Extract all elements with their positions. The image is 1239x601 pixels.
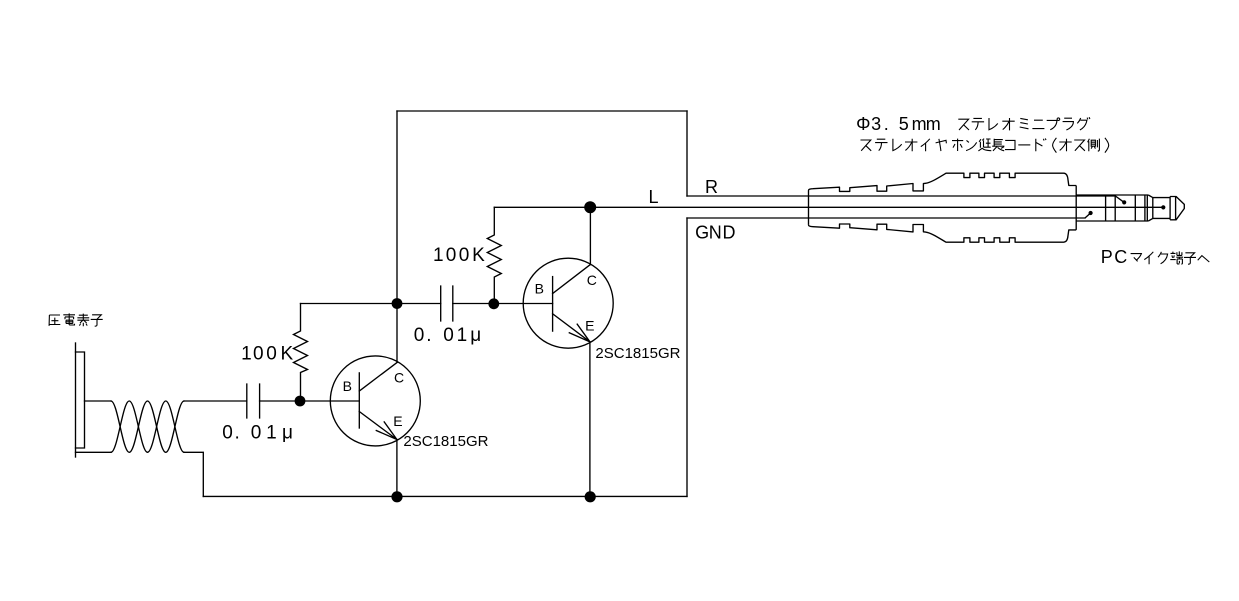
svg-text:C: C xyxy=(587,272,597,288)
transistor Q1 base bar xyxy=(358,373,360,428)
wire twisted pair upper xyxy=(111,401,184,452)
svg-text:m: m xyxy=(926,114,941,134)
wire Q1 base node to base bar xyxy=(300,400,359,402)
wire right vertical top (top rail to R line) xyxy=(686,111,688,196)
svg-text:0: 0 xyxy=(459,245,470,266)
node Q2 emitter ground junction xyxy=(585,491,596,502)
svg-text:R: R xyxy=(705,177,718,197)
wire bottom-left drop to ground rail xyxy=(184,452,203,496)
wire Q2 base node to base bar xyxy=(494,303,552,305)
leader R contact xyxy=(1115,196,1124,202)
wire C1 to Q1 base node xyxy=(260,400,300,402)
svg-text:E: E xyxy=(393,413,402,429)
svg-text:m: m xyxy=(912,114,927,134)
piezo element plate xyxy=(75,343,77,457)
wire GND line xyxy=(687,217,1085,219)
svg-text:B: B xyxy=(535,281,544,297)
svg-text:0: 0 xyxy=(222,423,233,444)
transistor Q1 collector stroke xyxy=(359,362,397,391)
label katakana "sutereominipuragu" (stereo mini plug) xyxy=(958,117,1090,130)
node Q2 base junction xyxy=(488,298,499,309)
wire Q1 emitter to ground rail xyxy=(396,440,398,497)
capacitor C1 xyxy=(247,384,260,418)
svg-text:P: P xyxy=(1101,247,1113,267)
svg-text:G: G xyxy=(695,222,709,242)
plug shaft ring divider 2 xyxy=(1114,195,1116,221)
plug shaft ring divider 3 xyxy=(1134,195,1136,221)
label katakana line2 "sutereoiyahon enchou koodo (osu gawa)" xyxy=(861,138,1109,153)
wire piezo bottom lead xyxy=(76,451,112,453)
svg-text:1: 1 xyxy=(241,344,252,365)
transistor Q2 emitter stroke with arrow xyxy=(553,314,590,342)
node Q2 collector / L junction xyxy=(584,201,596,213)
svg-text:5: 5 xyxy=(899,114,909,134)
piezo element body xyxy=(76,352,85,448)
plug shaft ring divider 4 xyxy=(1144,195,1146,221)
svg-text:0: 0 xyxy=(443,325,454,346)
wire Q2 emitter to ground rail xyxy=(589,342,591,497)
resistor R2 100K xyxy=(487,207,501,303)
wire twisted pair lower xyxy=(111,401,184,452)
node Q1 base junction xyxy=(295,396,306,407)
contact dot sleeve xyxy=(1089,211,1093,215)
transistor Q2 base bar xyxy=(552,277,554,332)
wire left vertical (Q1 collector to top rail) xyxy=(396,111,398,362)
svg-text:E: E xyxy=(585,318,594,334)
contact dot tip xyxy=(1161,205,1165,209)
svg-text:C: C xyxy=(1114,247,1127,267)
transistor Q1 circle xyxy=(330,356,420,446)
svg-text:3: 3 xyxy=(871,114,881,134)
svg-text:C: C xyxy=(394,369,404,385)
svg-text:1: 1 xyxy=(457,325,468,346)
svg-text:2SC1815GR: 2SC1815GR xyxy=(595,345,680,362)
label kanji "atsudensoshi" (piezo element) xyxy=(49,313,103,326)
wire twisted pair to C1 xyxy=(184,400,247,402)
svg-text:0: 0 xyxy=(266,344,277,365)
transistor Q1 emitter stroke with arrow xyxy=(359,412,397,440)
plug shaft ring divider 1 xyxy=(1105,195,1107,221)
svg-text:1: 1 xyxy=(266,423,277,444)
wire top rail xyxy=(397,110,687,112)
svg-text:1: 1 xyxy=(433,245,444,266)
wire Q2 collector to L line xyxy=(589,207,591,264)
plug body moulded outline bottom xyxy=(809,224,1077,242)
svg-text:μ: μ xyxy=(470,325,481,346)
wire R line xyxy=(687,195,1115,197)
resistor R1 100K xyxy=(294,304,308,401)
svg-text:K: K xyxy=(281,344,294,365)
svg-text:K: K xyxy=(472,245,485,266)
svg-text:N: N xyxy=(709,222,722,242)
wire right vertical bottom (GND line to bottom rail) xyxy=(686,218,688,496)
capacitor C2 xyxy=(441,286,453,321)
svg-text:0: 0 xyxy=(446,245,457,266)
contact dot ring xyxy=(1122,200,1126,204)
svg-text:.: . xyxy=(235,423,240,444)
plug shaft right edge xyxy=(1146,195,1148,221)
svg-text:.: . xyxy=(426,325,431,346)
transistor Q2 circle xyxy=(523,258,613,348)
wire L line xyxy=(494,206,1161,208)
wire bottom rail xyxy=(203,495,687,497)
svg-text:D: D xyxy=(723,222,736,242)
wire piezo top lead xyxy=(85,400,112,402)
transistor Q2 collector stroke xyxy=(553,265,591,294)
svg-text:L: L xyxy=(649,187,659,207)
svg-text:2SC1815GR: 2SC1815GR xyxy=(403,433,488,450)
svg-text:B: B xyxy=(343,378,352,394)
plug neck and tip xyxy=(1148,195,1184,221)
svg-text:Φ: Φ xyxy=(856,114,870,134)
node Q1 emitter ground junction xyxy=(391,491,402,502)
svg-text:μ: μ xyxy=(282,423,293,444)
node stage1 collector junction xyxy=(392,298,403,309)
svg-text:.: . xyxy=(884,114,889,134)
wire C2 to Q2 base node xyxy=(453,303,495,305)
plug body left edge xyxy=(808,191,810,225)
svg-text:0: 0 xyxy=(414,325,425,346)
svg-text:0: 0 xyxy=(251,423,262,444)
plug body moulded outline top xyxy=(809,173,1077,191)
leader GND contact xyxy=(1085,213,1090,218)
plug shaft outline xyxy=(1076,186,1148,230)
node base line stage1 (R1 top to C2) xyxy=(301,303,441,305)
svg-text:0: 0 xyxy=(253,344,264,365)
